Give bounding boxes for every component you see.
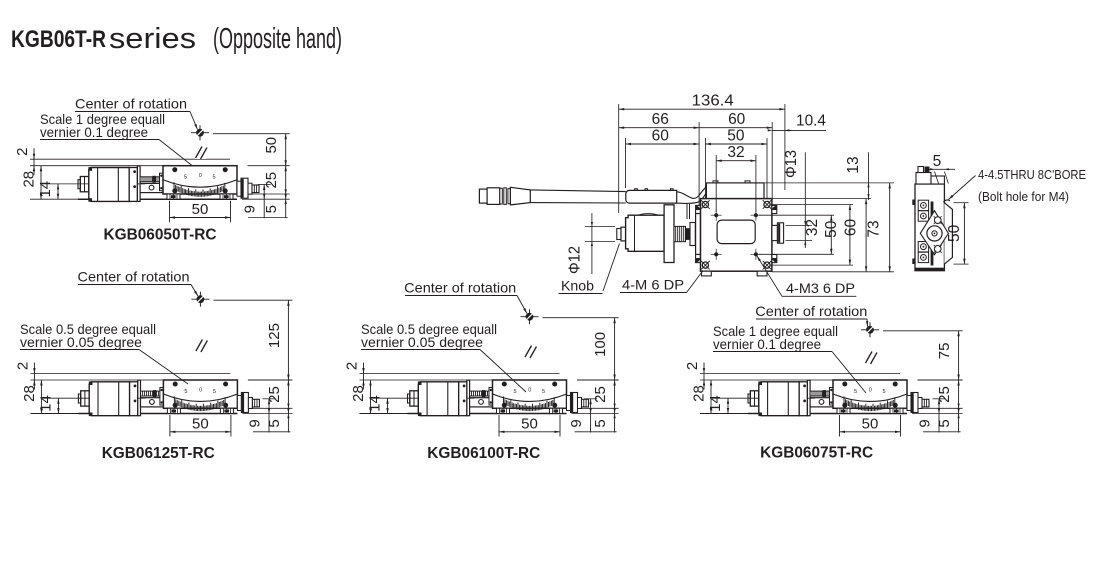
cable connector tip: [479, 189, 487, 203]
svg-text:Center of rotation: Center of rotation: [755, 303, 867, 319]
stage left clamp tabs: [696, 205, 701, 213]
end view bottom strip: [916, 268, 944, 271]
dimension 9 KGB06100T-RC: [584, 398, 597, 400]
svg-text:Φ13: Φ13: [783, 150, 800, 178]
svg-text:5: 5: [266, 419, 283, 427]
dimension 2 KGB06075T-RC: [703, 363, 705, 390]
right vernier knob KGB06075T-RC: [907, 396, 911, 411]
svg-text:5: 5: [184, 175, 187, 181]
dimension 5 KGB06100T-RC: [580, 407, 619, 409]
dimension 50 right KGB06050T-RC: [213, 133, 290, 135]
svg-text:Φ12: Φ12: [567, 246, 584, 274]
svg-text:5: 5: [542, 389, 545, 395]
break symbol KGB06100T-RC: [525, 344, 536, 358]
bracket plate KGB06100T-RC: [467, 380, 470, 416]
bracket plate KGB06125T-RC: [138, 380, 141, 416]
platform screws KGB06075T-RC: [842, 382, 847, 387]
svg-text:KGB06075T-RC: KGB06075T-RC: [760, 445, 873, 462]
centerline KGB06125T-RC: [199, 307, 201, 400]
svg-text:4-M 6 DP: 4-M 6 DP: [622, 276, 684, 292]
dimension 9 KGB06125T-RC: [263, 398, 276, 400]
dimension 60 right: [865, 199, 867, 272]
dimension 60 row3: [625, 138, 627, 188]
platform feet KGB06125T-RC: [167, 408, 180, 413]
svg-text:5: 5: [513, 389, 516, 395]
svg-text:10.4: 10.4: [796, 112, 826, 129]
dimension 28 KGB06050T-RC: [40, 166, 42, 200]
svg-text:5: 5: [936, 419, 953, 427]
svg-text:73: 73: [865, 220, 882, 237]
carriage block KGB06075T-RC: [810, 398, 833, 407]
svg-text:32: 32: [804, 219, 821, 236]
motor flange KGB06125T-RC: [130, 382, 138, 416]
motor flange KGB06050T-RC: [129, 168, 137, 202]
right vernier knob KGB06100T-RC: [567, 396, 571, 411]
left tab KGB06050T-RC: [160, 173, 164, 191]
svg-text:13: 13: [845, 156, 862, 173]
dimension 14 KGB06050T-RC: [42, 183, 89, 185]
dimension 66: [698, 122, 700, 206]
platform feet KGB06050T-RC: [167, 194, 180, 199]
stage left wall: [696, 214, 701, 255]
svg-text:14: 14: [37, 395, 54, 412]
cable boot taper: [510, 187, 530, 205]
svg-text:5: 5: [263, 205, 280, 213]
svg-text:5: 5: [854, 389, 857, 395]
end view small screws: [934, 217, 941, 224]
svg-text:Knob: Knob: [561, 278, 594, 294]
wire platform top extension KGB06050T-RC: [30, 165, 163, 167]
right vernier knob KGB06125T-RC: [237, 396, 241, 411]
svg-text:2: 2: [344, 362, 361, 370]
flexible shaft: [530, 190, 626, 192]
dimension 32 right: [759, 214, 834, 216]
svg-text:75: 75: [936, 343, 953, 360]
platform screws KGB06125T-RC: [173, 382, 178, 387]
svg-text:60: 60: [728, 111, 746, 128]
dimension 60 top: [771, 122, 773, 200]
svg-text:50: 50: [862, 415, 879, 432]
wire bottom row KGB06050T-RC: [248, 217, 288, 219]
svg-text:50: 50: [521, 415, 538, 432]
end view side screw blocks: [918, 200, 928, 210]
dimension 50 row3: [704, 138, 706, 199]
end view right plate: [944, 203, 952, 264]
svg-text:(Opposite hand): (Opposite hand): [213, 23, 342, 55]
platform arc KGB06050T-RC: [163, 180, 237, 187]
motor connector KGB06075T-RC: [748, 394, 750, 403]
svg-text:25: 25: [592, 386, 609, 403]
knob shaft housing: [626, 190, 677, 203]
svg-text:136.4: 136.4: [692, 93, 734, 110]
goniometer platform KGB06100T-RC: [493, 380, 567, 408]
end view center boss: [927, 226, 942, 241]
motor body KGB06100T-RC: [418, 382, 458, 416]
svg-text:9: 9: [568, 419, 585, 427]
wire bottom row KGB06075T-RC: [923, 431, 961, 433]
svg-text:vernier 0.1 degree: vernier 0.1 degree: [713, 336, 821, 352]
svg-text:0: 0: [199, 173, 202, 179]
motor sticker: [638, 213, 660, 215]
motor connector (top view): [617, 229, 621, 240]
svg-text:25: 25: [263, 172, 280, 189]
platform feet KGB06100T-RC: [497, 408, 510, 413]
dimension 5 KGB06125T-RC: [250, 407, 292, 409]
svg-text:60: 60: [652, 127, 670, 144]
dimension 25 KGB06100T-RC: [577, 379, 619, 381]
corner screws 4-M6: [702, 201, 708, 207]
dimension 9 KGB06050T-RC: [258, 184, 271, 186]
vernier scale ticks KGB06075T-RC: [844, 397, 895, 412]
stage square plate: [701, 199, 772, 272]
svg-text:5: 5: [882, 389, 885, 395]
platform arc KGB06075T-RC: [833, 394, 907, 401]
inner holes 4-M3: [714, 213, 718, 217]
svg-text:28: 28: [21, 385, 38, 402]
cable clamp: [686, 204, 688, 219]
svg-text:5: 5: [212, 175, 215, 181]
svg-text:50: 50: [192, 201, 209, 218]
lead screw knurl KGB06050T-RC: [140, 177, 160, 182]
dimension 136.4: [618, 104, 620, 213]
svg-text:28: 28: [691, 385, 708, 402]
svg-text:series: series: [109, 23, 196, 55]
platform screws KGB06100T-RC: [502, 382, 507, 387]
center of rotation symbol KGB06125T-RC: [191, 298, 209, 300]
platform screws KGB06050T-RC: [172, 167, 177, 172]
stage center pocket: [717, 220, 755, 244]
svg-text:5: 5: [213, 389, 216, 395]
wire platform top extension KGB06125T-RC: [30, 379, 163, 381]
svg-text:50: 50: [263, 137, 280, 154]
dimension 25 KGB06075T-RC: [918, 379, 963, 381]
break symbol KGB06050T-RC: [195, 145, 206, 159]
svg-text:32: 32: [727, 144, 744, 161]
dimension 32 row4: [715, 155, 717, 212]
svg-text:5: 5: [184, 389, 187, 395]
svg-text:5: 5: [592, 419, 609, 427]
center of rotation symbol KGB06100T-RC: [521, 316, 539, 318]
lead screw knurl KGB06075T-RC: [810, 391, 830, 396]
center of rotation symbol KGB06050T-RC: [191, 132, 209, 134]
svg-text:KGB06T-R: KGB06T-R: [11, 26, 106, 53]
lead screw knurl KGB06125T-RC: [141, 391, 161, 396]
svg-text:0: 0: [199, 388, 202, 394]
platform arc KGB06125T-RC: [163, 394, 237, 401]
cable connector rings: [500, 188, 503, 204]
dimension 13 right: [764, 182, 894, 184]
left tab KGB06125T-RC: [160, 388, 164, 406]
centerline KGB06100T-RC: [529, 325, 531, 401]
svg-text:4-M3 6 DP: 4-M3 6 DP: [786, 280, 855, 296]
dimension 5 end view: [925, 168, 955, 170]
break symbol KGB06075T-RC: [865, 350, 876, 364]
dimension 14 KGB06100T-RC: [372, 397, 419, 399]
label 4-4.5THRU: [949, 176, 976, 200]
dimension 25 KGB06050T-RC: [248, 165, 290, 167]
svg-text:50: 50: [946, 224, 963, 242]
svg-text:14: 14: [707, 395, 724, 412]
svg-text:KGB06050T-RC: KGB06050T-RC: [104, 227, 217, 244]
svg-text:2: 2: [14, 148, 31, 156]
dimension 10.4: [772, 129, 826, 131]
dimension 5 KGB06050T-RC: [250, 193, 290, 195]
svg-text:Center of rotation: Center of rotation: [75, 96, 187, 112]
left tab KGB06075T-RC: [830, 388, 834, 406]
svg-text:vernier 0.05 degree: vernier 0.05 degree: [20, 334, 142, 350]
wire baseline KGB06125T-RC: [30, 413, 237, 415]
svg-text:14: 14: [367, 395, 384, 412]
svg-text:2: 2: [684, 362, 701, 370]
wire top travel line KGB06100T-RC: [360, 373, 560, 375]
dimension 50 right: [771, 204, 854, 206]
wire baseline KGB06100T-RC: [360, 413, 567, 415]
platform arc KGB06100T-RC: [493, 394, 567, 401]
dimension 25 KGB06125T-RC: [248, 379, 293, 381]
stage top plate: [706, 183, 764, 199]
svg-text:9: 9: [242, 205, 259, 213]
svg-text:9: 9: [247, 419, 264, 427]
wire platform top extension KGB06075T-RC: [700, 379, 833, 381]
coupling knurl (top view): [674, 226, 686, 241]
bracket plate KGB06050T-RC: [137, 166, 140, 202]
svg-text:vernier 0.05 degree: vernier 0.05 degree: [361, 334, 483, 350]
dimension 50 bottom KGB06050T-RC: [169, 201, 171, 223]
svg-text:vernier 0.1 degree: vernier 0.1 degree: [40, 124, 148, 140]
goniometer platform KGB06050T-RC: [163, 166, 237, 194]
svg-text:50: 50: [727, 127, 745, 144]
cable connector body: [487, 188, 500, 205]
dimension 14 KGB06075T-RC: [712, 397, 759, 399]
dimension 125 right KGB06125T-RC: [213, 299, 292, 301]
svg-text:28: 28: [350, 385, 367, 402]
svg-text:2: 2: [14, 362, 31, 370]
centerline KGB06075T-RC: [869, 338, 871, 401]
dimension 73: [772, 271, 894, 273]
dimension 14 KGB06125T-RC: [42, 397, 89, 399]
motor body (top view): [626, 215, 665, 251]
wire top travel line KGB06075T-RC: [700, 373, 900, 375]
center of rotation symbol KGB06075T-RC: [861, 329, 879, 331]
dimension 5 KGB06075T-RC: [920, 407, 963, 409]
dimension 2 KGB06100T-RC: [363, 363, 365, 390]
motor body KGB06075T-RC: [759, 382, 799, 416]
svg-text:0: 0: [869, 388, 872, 394]
end view main body: [915, 184, 944, 271]
end view top step: [916, 173, 931, 185]
svg-text:Center of rotation: Center of rotation: [78, 269, 190, 285]
wire top travel line KGB06050T-RC: [30, 158, 230, 160]
stage right tabs: [772, 205, 777, 213]
svg-text:60: 60: [842, 219, 859, 237]
cable S-curve: [677, 186, 708, 198]
wire baseline KGB06075T-RC: [700, 413, 907, 415]
svg-text:14: 14: [37, 181, 54, 198]
svg-text:28: 28: [21, 171, 38, 188]
right vernier knob KGB06050T-RC: [237, 181, 241, 196]
end view left tabs: [912, 200, 915, 206]
motor body KGB06050T-RC: [89, 168, 129, 202]
motor bracket (top view): [664, 205, 674, 263]
wire bottom row KGB06125T-RC: [253, 431, 290, 433]
right vernier knob (top view): [772, 225, 778, 240]
break symbol KGB06125T-RC: [195, 338, 206, 352]
platform feet KGB06075T-RC: [837, 408, 850, 413]
motor connector KGB06125T-RC: [78, 394, 80, 403]
dimension phi12: [585, 226, 615, 228]
svg-text:KGB06100T-RC: KGB06100T-RC: [427, 445, 540, 462]
goniometer platform KGB06125T-RC: [163, 380, 237, 408]
end view diamond: [920, 211, 948, 255]
motor connector KGB06050T-RC: [78, 180, 80, 189]
svg-text:50: 50: [192, 415, 209, 432]
motor flange KGB06100T-RC: [459, 382, 467, 416]
bracket plate KGB06075T-RC: [807, 380, 810, 416]
svg-text:25: 25: [266, 386, 283, 403]
dimension phi13: [786, 224, 813, 226]
svg-text:9: 9: [917, 419, 934, 427]
wire top travel line KGB06125T-RC: [30, 373, 230, 375]
centerline KGB06050T-RC: [199, 141, 201, 187]
carriage block KGB06125T-RC: [141, 398, 164, 407]
svg-text:100: 100: [592, 332, 609, 357]
svg-text:5: 5: [933, 153, 942, 170]
dimension 28 KGB06100T-RC: [370, 380, 372, 414]
vernier scale ticks KGB06100T-RC: [504, 397, 555, 412]
dimension 50 bottom KGB06125T-RC: [169, 415, 171, 437]
motor body KGB06125T-RC: [89, 382, 129, 416]
wire bottom row KGB06100T-RC: [575, 431, 617, 433]
vernier scale ticks KGB06050T-RC: [174, 182, 225, 197]
carriage block KGB06100T-RC: [470, 398, 493, 407]
dimension 50 bottom KGB06075T-RC: [839, 415, 841, 437]
dimension 28 KGB06125T-RC: [40, 380, 42, 414]
svg-text:4-4.5THRU 8C'BORE: 4-4.5THRU 8C'BORE: [978, 167, 1086, 182]
left tab KGB06100T-RC: [489, 388, 493, 406]
carriage block KGB06050T-RC: [140, 183, 163, 192]
motor flange KGB06075T-RC: [799, 382, 807, 416]
svg-text:Center of rotation: Center of rotation: [404, 280, 516, 296]
wire baseline KGB06050T-RC: [30, 198, 237, 200]
goniometer platform KGB06075T-RC: [833, 380, 907, 408]
svg-text:125: 125: [266, 323, 283, 348]
wire platform top extension KGB06100T-RC: [360, 379, 493, 381]
vernier scale ticks KGB06125T-RC: [174, 397, 225, 412]
dimension 75 right KGB06075T-RC: [883, 330, 963, 332]
end view cbore arc: [944, 200, 951, 202]
svg-text:(Bolt hole for M4): (Bolt hole for M4): [978, 189, 1069, 204]
motor connector KGB06100T-RC: [408, 394, 410, 403]
dimension 2 KGB06050T-RC: [33, 148, 35, 175]
dimension 50 bottom KGB06100T-RC: [498, 415, 500, 437]
dimension 100 right KGB06100T-RC: [543, 317, 619, 319]
svg-text:66: 66: [652, 111, 669, 128]
dimension 2 KGB06125T-RC: [33, 363, 35, 390]
dimension 9 KGB06075T-RC: [933, 398, 946, 400]
svg-text:0: 0: [528, 388, 531, 394]
svg-text:KGB06125T-RC: KGB06125T-RC: [102, 445, 215, 462]
dimension 28 KGB06075T-RC: [710, 380, 712, 414]
dimension 50 end view: [954, 202, 969, 204]
lead screw knurl KGB06100T-RC: [470, 391, 490, 396]
stage feet: [702, 271, 712, 276]
